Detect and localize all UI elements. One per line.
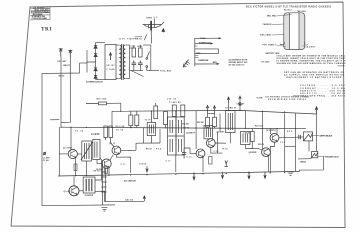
wire Q2 collector (79, 190, 83, 192)
capacitor C102 (138, 61, 143, 68)
transistor Q4 (112, 146, 121, 155)
wire box diag (100, 158, 103, 161)
B+ bus main (61, 127, 306, 129)
svg-text:R33: R33 (287, 131, 292, 133)
wire conv stage vertical (58, 127, 60, 176)
ground arrow Q5 (225, 161, 228, 167)
switch S1 (146, 52, 151, 71)
IF transformer T3 double box (168, 117, 185, 155)
svg-text:C17: C17 (166, 160, 171, 162)
svg-text:T5 OUTPUT: T5 OUTPUT (85, 195, 95, 197)
resistor R27 (250, 132, 254, 142)
svg-text:C3 .02: C3 .02 (75, 130, 83, 132)
transistor Q4 internals (114, 147, 119, 154)
bias resistors Q4 pair (104, 126, 114, 147)
wire T6 right bottom (95, 191, 105, 201)
wire T1 bottom (86, 161, 88, 176)
wire PS output right (151, 45, 159, 71)
wire T3 top (175, 111, 177, 117)
svg-text:Q4 2ND IF: Q4 2ND IF (186, 132, 196, 135)
wire Q7 emitter (268, 156, 270, 172)
svg-text:C20 05: C20 05 (183, 127, 189, 129)
svg-text:C11: C11 (121, 164, 126, 166)
driver transformer T6 (83, 177, 95, 193)
transistor Q5 internals (199, 150, 204, 157)
wire J1 to J2 (308, 141, 310, 152)
rectifier CR2 (94, 54, 97, 57)
wire stage vertical mid (217, 132, 219, 153)
trimmer C1 (43, 152, 46, 155)
TB1 lead 2 (195, 43, 214, 45)
svg-text:C30 30: C30 30 (244, 133, 250, 135)
resistor R100 (132, 48, 136, 57)
resistor Q5 emitter (209, 157, 212, 165)
junction dots B+ bus (60, 127, 296, 130)
junction dots rail (120, 110, 285, 113)
battery B1 body (280, 13, 308, 50)
svg-text:GRN 22: GRN 22 (300, 161, 306, 163)
PS right wiring (130, 45, 151, 77)
wire Q1 collector to T1 (77, 153, 81, 155)
arrow in filter block (109, 53, 111, 60)
wire T3 bottom (175, 155, 177, 172)
transformer T100 core (121, 44, 123, 80)
antenna prong 1 (59, 49, 63, 57)
wire T3 out (184, 148, 196, 153)
wire T7 bottom (246, 145, 253, 149)
rectifier CR1 (94, 45, 97, 48)
IF input coil box (93, 140, 100, 160)
ground arrow 3 (248, 171, 250, 178)
common bus bottom (58, 171, 300, 176)
transformer T100 leads (116, 45, 130, 79)
svg-text:R27 560: R27 560 (255, 126, 263, 128)
svg-text:T3 455 KC: T3 455 KC (169, 101, 182, 104)
title block box (30, 6, 50, 20)
battery B1 flank shading left (284, 14, 289, 50)
wire bottom feed (105, 200, 145, 202)
svg-text:Q6 DRVR: Q6 DRVR (249, 152, 258, 154)
svg-text:VOL 10K: VOL 10K (182, 124, 190, 126)
output coil bottom (101, 162, 106, 205)
connector strip TB1 spine (194, 38, 196, 66)
diode CR1 (239, 102, 242, 105)
wire antenna link (50, 119, 59, 121)
junction dots common bus (75, 172, 285, 176)
wire out mid (284, 129, 286, 172)
oscillator coil T1 (81, 141, 93, 161)
svg-text:R24: R24 (223, 148, 229, 151)
svg-text:R18 10K: R18 10K (197, 122, 205, 124)
svg-text:C12 05: C12 05 (139, 164, 146, 166)
wire Q6 emitter down (211, 147, 223, 153)
leader J2 (318, 155, 325, 157)
driver transformer T4 (204, 126, 213, 139)
wire speaker to supply (150, 31, 152, 44)
wire Q2 top (73, 176, 75, 186)
resistor R21 (213, 106, 217, 128)
transistor Q1 (68, 149, 77, 158)
svg-text:R6 2.2K: R6 2.2K (116, 126, 126, 128)
transistor Q8 (270, 133, 279, 142)
wire out bottom pair (103, 161, 106, 206)
battery leader labels (260, 10, 316, 49)
transistor Q8 internals (273, 134, 278, 141)
TB1 labels (196, 38, 218, 64)
arrow det top (239, 96, 241, 99)
wire out top links (285, 113, 296, 128)
wire T5 bottom (230, 133, 232, 144)
resistor R15 (172, 105, 176, 117)
IF transformer T5 (226, 111, 235, 133)
svg-text:VC 10K: VC 10K (257, 98, 264, 100)
svg-text:T4 3RD IF: T4 3RD IF (225, 107, 237, 110)
wire T5 top arrow (228, 103, 230, 111)
svg-text:Q3 IF: Q3 IF (109, 143, 116, 145)
transistor Q3 internals (104, 160, 109, 167)
audio stage vertical feeds (252, 112, 277, 149)
resistor R8 under Q3 (104, 167, 107, 174)
svg-text:Q7 OUTPUT: Q7 OUTPUT (266, 130, 277, 132)
transistor Q2 internals (72, 187, 77, 194)
bridge wiring (80, 43, 106, 80)
voltage chart C (293, 84, 346, 97)
transistor Q5 (196, 149, 205, 158)
B+ rail upper (112, 110, 317, 114)
wire Q4 collector right (121, 149, 136, 151)
resistor R4 ticks (74, 164, 77, 171)
wire speaker elbow (144, 35, 146, 41)
speaker magnet pole (150, 21, 152, 31)
resistor R16 (181, 105, 185, 117)
wire det vertical (220, 97, 246, 133)
svg-text:R5 47K: R5 47K (91, 133, 100, 136)
test point arrow TP1 (183, 60, 189, 68)
resistor R12 (154, 103, 158, 119)
wire Q1 base feed (68, 127, 71, 152)
arrow T5 (227, 97, 229, 103)
IF transformer T2 (147, 111, 155, 143)
wire Q3 emitter (108, 168, 110, 175)
ground hatch right (288, 172, 294, 175)
arrow B+ right (315, 107, 317, 114)
wire across R20 R21 (208, 113, 215, 115)
transformer T100 secondary (123, 45, 125, 79)
wire jack return (300, 157, 324, 172)
capacitor C22 (182, 149, 186, 159)
wire rail left stub (111, 111, 113, 127)
arrow R20 top (206, 105, 208, 108)
wire Q5 emitter (202, 157, 204, 172)
capacitor C101 (132, 61, 137, 68)
wire AC line down 1 (60, 57, 62, 128)
wire Q1 emitter (75, 158, 77, 176)
arrow B+ at speaker (162, 29, 165, 33)
wire top left horizontal (42, 68, 80, 73)
ground arrow 2 (221, 172, 223, 179)
svg-text:L1 ANT: L1 ANT (43, 157, 51, 160)
svg-text:R9 1K: R9 1K (146, 149, 153, 151)
svg-text:R30 1200: R30 1200 (97, 99, 107, 101)
ground arrow mid (146, 169, 148, 172)
ground bottom left (102, 208, 108, 212)
wire Q7 base (258, 148, 262, 150)
transistor Q1 internals (71, 151, 76, 158)
svg-text:C22: C22 (187, 156, 192, 158)
rectifier CR3 (94, 68, 97, 71)
jack J1 earphone (304, 132, 313, 141)
svg-text:R29 10: R29 10 (258, 144, 264, 146)
wire out mid link (285, 145, 296, 147)
TB1 lead 1 (195, 37, 222, 39)
antenna prong 2 (68, 50, 72, 57)
wire T6 right top (95, 161, 102, 181)
overline T100 (135, 36, 143, 38)
wire stage vertical (195, 111, 197, 150)
title block text rows (31, 7, 50, 20)
svg-text:C15 .05: C15 .05 (167, 98, 176, 100)
resistor R101 (139, 48, 143, 57)
wire R27 down (252, 142, 258, 149)
note paragraph B (284, 71, 344, 79)
rectifier CR4 (94, 75, 97, 78)
resistor R20 (206, 106, 210, 128)
wire mid verticals (136, 128, 160, 173)
arrow R21 top (213, 106, 215, 109)
filter block box (105, 45, 116, 80)
wire Q6 out right (215, 142, 226, 144)
transistor Q2 (69, 186, 79, 196)
transistor Q7 (262, 148, 271, 157)
wire Q4 emitter link (116, 155, 130, 173)
wire right vertical (295, 129, 297, 172)
svg-text:FROM WIRING SIDE PW500: FROM WIRING SIDE PW500 (268, 99, 306, 101)
jack J2 speaker (312, 152, 318, 158)
wire Q8 collector out (279, 136, 304, 139)
wire Q3 base (97, 160, 102, 164)
svg-text:C33: C33 (280, 142, 285, 144)
note paragraph A (277, 54, 347, 67)
svg-text:C9 .05: C9 .05 (116, 130, 123, 132)
resistor R13 (164, 112, 168, 128)
wire chassis left edge (42, 73, 115, 205)
svg-text:R14: R14 (156, 147, 162, 150)
battery B1 flank shading right (299, 14, 304, 50)
wire step down to rail (120, 103, 122, 111)
TB1 lead 3 loop (195, 49, 219, 54)
svg-text:AVC LINE 6.8K: AVC LINE 6.8K (124, 180, 137, 183)
wire Q1 base left (59, 153, 68, 155)
arrow bottom feed (143, 196, 145, 201)
speaker SP1 (143, 19, 164, 29)
battery leader lines (272, 15, 306, 47)
svg-text:Q1 CONV: Q1 CONV (63, 148, 73, 150)
transistor Q7 internals (264, 149, 269, 156)
wire into J2 (298, 158, 312, 160)
svg-text:EARPHONE JACK: EARPHONE JACK (320, 135, 334, 138)
wire Q8 emitter (270, 142, 274, 172)
driver transformer T7 (241, 132, 251, 145)
svg-text:SPEAKER JACK: SPEAKER JACK (325, 155, 340, 158)
resistor cluster R10 (129, 111, 139, 127)
resistor R1 on feed (86, 102, 121, 105)
ground arrows along bus (193, 172, 195, 180)
svg-text:T2 IF: T2 IF (145, 120, 152, 122)
svg-text:Q8 AF: Q8 AF (64, 190, 72, 193)
svg-text:C40 100: C40 100 (125, 198, 133, 201)
capacitor C35 (299, 135, 301, 139)
transistor Q3 (102, 159, 111, 168)
wire Q3 diag (110, 155, 113, 161)
transistor Q6 (206, 139, 215, 148)
ground arrow 4 (264, 172, 266, 179)
svg-text:C1 160: C1 160 (43, 160, 49, 162)
wire jack vertical right (316, 114, 318, 152)
wire AC line down 2 (61, 58, 70, 123)
TB1 pin stubs (195, 46, 199, 58)
transistor Q6 internals (209, 140, 214, 147)
leader J1 (313, 135, 320, 137)
transformer T100 primary (119, 45, 121, 79)
TB1 lead 4 (195, 63, 220, 65)
